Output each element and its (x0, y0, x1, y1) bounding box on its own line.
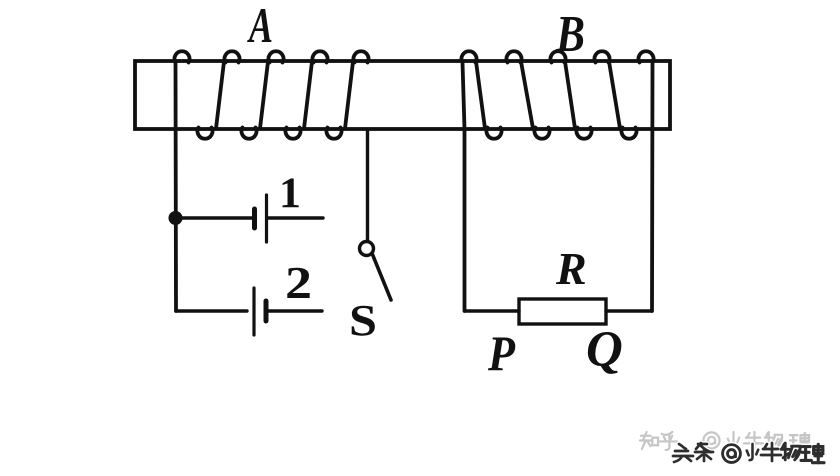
node junction dot (169, 211, 183, 225)
switch S blade (373, 255, 392, 301)
svg-text:2: 2 (285, 258, 312, 308)
switch S lead wire (366, 131, 369, 240)
resistor R box (519, 299, 606, 324)
watermark toutiao dark (673, 443, 824, 463)
wire battery2 left (176, 309, 247, 312)
wire resistor bottom left (465, 309, 519, 312)
svg-text:Q: Q (586, 322, 623, 378)
wire battery1 left (176, 216, 252, 219)
battery cell 1 long plate (265, 195, 268, 242)
coil B left lead wire and first loop (461, 51, 476, 311)
switch S pivot circle (360, 242, 374, 256)
iron core (135, 61, 670, 129)
battery cell 2 long plate (252, 288, 255, 335)
coil B winding strokes (476, 62, 620, 129)
coil B last loop and right lead wire (639, 51, 654, 311)
battery cell 2 short plate (264, 301, 269, 321)
wire battery2 right (267, 309, 322, 312)
wire resistor bottom right (606, 309, 652, 312)
coil A bottom loop arcs (198, 128, 342, 139)
coil A left lead wire and first loop (175, 51, 190, 311)
svg-text:B: B (555, 6, 585, 63)
battery cell 1 short plate (252, 209, 257, 228)
coil B bottom loop arcs (487, 128, 637, 139)
watermark zhihu gray (640, 432, 810, 450)
coil A top loop arcs (225, 51, 369, 62)
svg-text:P: P (487, 325, 515, 381)
svg-text:A: A (247, 0, 273, 53)
svg-text:S: S (349, 296, 377, 345)
coil B top loop arcs (507, 51, 610, 62)
svg-text:1: 1 (279, 170, 301, 217)
svg-text:R: R (555, 243, 587, 294)
coil A winding strokes (216, 62, 353, 129)
wire battery1 right (267, 216, 323, 219)
